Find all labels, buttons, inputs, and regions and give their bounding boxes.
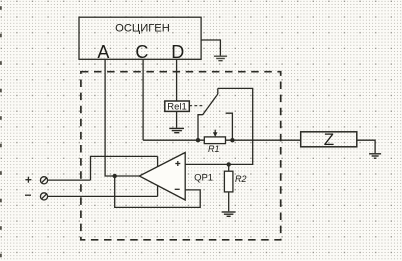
ground (R2) (222, 212, 236, 216)
dashed enclosure (81, 72, 281, 240)
node switch-main junction (196, 138, 200, 142)
wire − terminal to riser rail (157, 156, 159, 196)
mechanical link relay to switch (dashed) (189, 105, 204, 107)
svg-text:Rel1: Rel1 (167, 101, 187, 112)
wire − terminal (48, 195, 158, 197)
terminal + (25, 177, 47, 184)
generator block ОСЦИГЕН (79, 17, 201, 59)
ground (relay) (169, 128, 184, 132)
op-amp QP1 (139, 153, 213, 201)
wire Z to ground (357, 140, 375, 153)
ground (Z) (369, 154, 381, 158)
terminal − (25, 193, 48, 200)
node output junction (113, 174, 117, 178)
wire main line to Z (143, 139, 301, 141)
wire relay to ground (176, 111, 178, 128)
wire wiper hook to R1 right terminal (226, 113, 233, 140)
load Z (301, 130, 357, 149)
switch fixed contact and blade (198, 88, 218, 140)
ground (generator) (214, 56, 227, 61)
wire generator right edge to ground (201, 40, 220, 56)
node noninverting input junction (227, 162, 231, 166)
resistor R2 (224, 164, 246, 192)
node R1 right junction (230, 138, 234, 142)
svg-text:Z: Z (324, 130, 334, 149)
wire switch top to op-amp noninverting input (185, 88, 253, 164)
wire pin C down to main line (142, 59, 144, 140)
svg-text:R2: R2 (235, 174, 247, 184)
wire pin A to op-amp output (105, 59, 139, 176)
potentiometer R1 (204, 130, 225, 155)
svg-text:C: C (135, 42, 148, 62)
feedback wire output to inverting input (115, 176, 201, 207)
wire pin D to relay (176, 59, 178, 101)
svg-text:A: A (97, 42, 109, 62)
wire + terminal riser to top rail (91, 156, 158, 180)
svg-text:ОСЦИГЕН: ОСЦИГЕН (115, 22, 170, 34)
svg-text:QP1: QP1 (194, 173, 213, 184)
svg-text:R1: R1 (208, 144, 220, 154)
svg-text:D: D (171, 42, 184, 62)
relay Rel1 (165, 101, 190, 112)
wire + terminal (48, 179, 91, 181)
wire R2 to ground (228, 192, 230, 211)
scan edge marks (0, 6, 2, 257)
